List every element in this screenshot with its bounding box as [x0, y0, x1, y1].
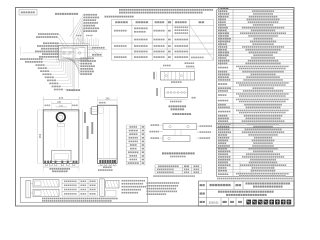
side view body	[98, 105, 118, 163]
drawing frame border	[16, 8, 295, 207]
drawing B caption	[169, 105, 187, 110]
bottom notes box	[20, 177, 148, 202]
front view left height dimension 353	[38, 110, 44, 163]
notes left of title block	[147, 182, 180, 195]
plan view bottom-right labels	[63, 58, 96, 75]
svg-text:353: 353	[38, 133, 42, 138]
dimensions between views	[82, 110, 93, 163]
gas table footnote	[153, 175, 195, 177]
connection size table	[126, 125, 145, 165]
plan view bottom tail lines and labels	[67, 60, 81, 91]
title block row3	[200, 201, 242, 205]
title block row2 model text	[200, 191, 274, 196]
units label box (単位:mm)	[19, 10, 37, 16]
pipe connection bottom view drawing	[156, 88, 195, 103]
gas heating value table	[155, 165, 201, 174]
svg-text:470: 470	[59, 96, 64, 100]
mounting detail caption	[173, 113, 192, 115]
mounting detail drawing	[150, 124, 213, 142]
side view top dimensions	[98, 97, 118, 105]
side view bottom stubs	[98, 160, 117, 171]
plan view top-left labels	[36, 33, 68, 48]
plan view title (上から見た場合)	[55, 13, 78, 15]
title block row1 text	[200, 183, 290, 188]
side view flue stub	[90, 107, 97, 115]
plan view top connection comb detail	[74, 35, 100, 55]
front view bottom dimensions	[43, 163, 79, 172]
spec table footnote	[217, 178, 293, 180]
mounting detail caption 2	[162, 152, 195, 157]
duct detail upper-left	[26, 180, 59, 198]
front view flue ring	[56, 113, 65, 122]
plan view top-right labels with leader lines	[70, 14, 99, 44]
front view lower access panel	[52, 150, 71, 161]
Rinnai company name (リンナイ株式会社)	[246, 200, 291, 205]
plan view construction centerlines	[21, 17, 104, 92]
svg-text:240: 240	[106, 97, 111, 100]
installation clearance table	[112, 19, 214, 60]
bottom box footnotes	[42, 198, 118, 202]
svg-text:2015.01: 2015.01	[209, 201, 220, 205]
bottom box small table	[62, 179, 97, 196]
notes paragraph	[105, 9, 214, 18]
plan view bottom-left labels	[20, 58, 59, 63]
spec table	[217, 10, 294, 177]
plan view right-side labels	[88, 47, 108, 57]
front view top dimension lines	[43, 96, 79, 110]
plan view left labels	[35, 42, 88, 58]
plan view central unit outline	[57, 44, 90, 62]
pipe connection top view drawing	[153, 62, 194, 83]
title block	[199, 181, 295, 206]
plan view cascade callout staircase	[36, 60, 75, 90]
front view bottom band and stubs	[43, 161, 79, 166]
duct detail lower-left	[30, 189, 59, 196]
bottom box right text	[122, 180, 147, 194]
duct detail right	[100, 179, 119, 197]
front view body	[43, 110, 79, 163]
spec table header (仕様)	[218, 7, 229, 9]
